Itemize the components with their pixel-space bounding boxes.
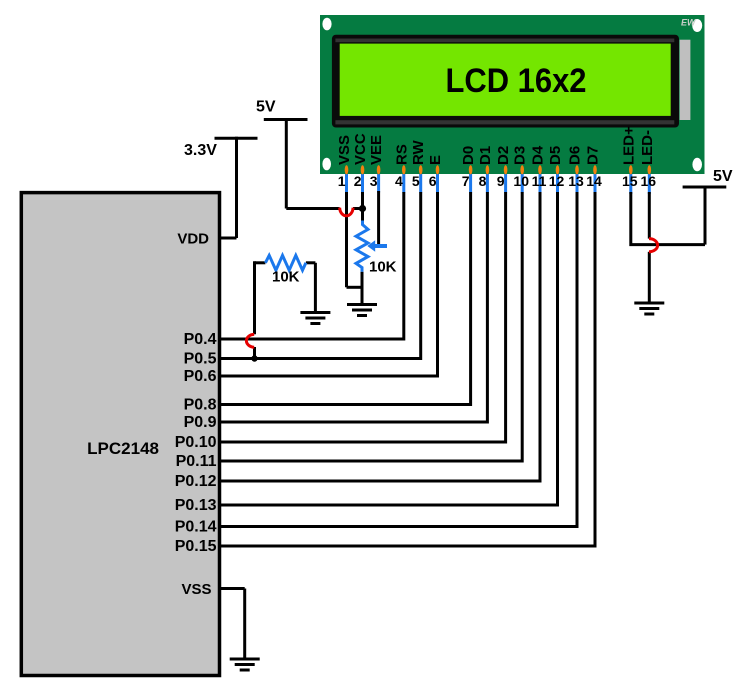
svg-text:7: 7 <box>462 173 470 189</box>
svg-text:D5: D5 <box>547 146 564 165</box>
svg-text:RS: RS <box>393 144 410 165</box>
svg-text:2: 2 <box>354 173 362 189</box>
svg-text:P0.8: P0.8 <box>184 397 217 414</box>
svg-text:LED-: LED- <box>639 130 656 165</box>
svg-text:8: 8 <box>479 173 487 189</box>
svg-text:4: 4 <box>395 173 403 189</box>
svg-text:P0.5: P0.5 <box>184 351 217 368</box>
svg-text:6: 6 <box>429 173 437 189</box>
svg-text:VSS: VSS <box>336 135 353 165</box>
svg-text:3: 3 <box>370 173 378 189</box>
svg-text:D3: D3 <box>512 146 529 165</box>
svg-text:P0.4: P0.4 <box>184 331 217 348</box>
svg-text:LPC2148: LPC2148 <box>87 439 159 458</box>
svg-text:11: 11 <box>532 173 547 189</box>
svg-text:D4: D4 <box>530 145 547 165</box>
svg-text:10: 10 <box>513 173 529 189</box>
svg-text:5V: 5V <box>256 99 276 116</box>
svg-text:P0.6: P0.6 <box>184 368 217 385</box>
svg-text:P0.13: P0.13 <box>175 497 217 514</box>
svg-text:E: E <box>427 155 444 165</box>
svg-text:D6: D6 <box>567 146 584 165</box>
svg-text:16: 16 <box>641 173 657 189</box>
svg-text:10K: 10K <box>369 259 397 276</box>
svg-text:D2: D2 <box>495 146 512 165</box>
svg-text:P0.12: P0.12 <box>175 473 217 490</box>
svg-text:15: 15 <box>622 173 638 189</box>
svg-text:5: 5 <box>412 173 420 189</box>
svg-text:13: 13 <box>568 173 584 189</box>
svg-text:RW: RW <box>410 139 427 165</box>
svg-text:5V: 5V <box>713 168 733 185</box>
svg-text:14: 14 <box>586 173 602 189</box>
svg-text:VDD: VDD <box>177 231 209 248</box>
svg-text:P0.11: P0.11 <box>176 453 217 470</box>
svg-text:P0.14: P0.14 <box>175 519 217 536</box>
svg-text:D0: D0 <box>460 146 477 165</box>
svg-text:3.3V: 3.3V <box>184 142 217 159</box>
svg-text:D7: D7 <box>585 146 602 165</box>
svg-text:10K: 10K <box>272 269 300 286</box>
svg-text:VSS: VSS <box>181 581 211 598</box>
svg-text:9: 9 <box>497 173 505 189</box>
svg-text:LCD 16x2: LCD 16x2 <box>446 62 587 100</box>
svg-text:VEE: VEE <box>368 135 385 165</box>
svg-text:VCC: VCC <box>352 133 369 165</box>
svg-text:EW: EW <box>681 18 697 28</box>
svg-text:P0.9: P0.9 <box>184 414 217 431</box>
svg-text:P0.15: P0.15 <box>175 538 217 555</box>
svg-text:1: 1 <box>338 173 346 189</box>
svg-text:12: 12 <box>549 173 565 189</box>
svg-text:D1: D1 <box>477 146 494 165</box>
svg-text:LED+: LED+ <box>620 126 637 165</box>
svg-text:P0.10: P0.10 <box>175 434 217 451</box>
